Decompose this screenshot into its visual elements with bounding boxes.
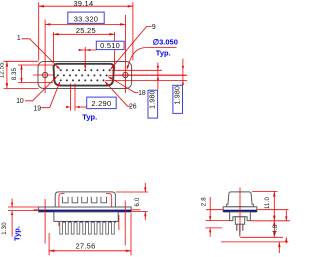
- svg-text:4.8: 4.8: [273, 224, 279, 233]
- side view pins: [237, 224, 243, 236]
- row extension line top: [112, 69, 163, 71]
- dim 1.980 right shaft: [182, 59, 184, 86]
- svg-text:10: 10: [16, 98, 24, 105]
- pin comb teeth: [60, 221, 114, 234]
- svg-text:1.980: 1.980: [150, 90, 157, 109]
- svg-text:19: 19: [33, 106, 41, 113]
- pin comb navy top line: [60, 221, 116, 223]
- label pin 26 leader: [105, 82, 130, 106]
- elevation right hole centerline: [124, 201, 126, 246]
- dim 33.320 arrows: [45, 23, 50, 26]
- side view vertical centerline: [239, 188, 241, 233]
- row extension line bottom: [105, 79, 187, 81]
- svg-text:27.56: 27.56: [75, 241, 95, 250]
- bottom reference line: [221, 241, 288, 243]
- dim 8.35 extension lines: [18, 64, 53, 66]
- shell inner red right extension: [111, 207, 113, 212]
- outer dim shaft upper: [285, 210, 287, 221]
- flange navy bottom edge: [39, 210, 131, 212]
- centerline through mounting holes: [33, 74, 53, 76]
- dim 39.14 extension lines: [38, 2, 40, 60]
- shell notch 2: [72, 197, 78, 203]
- body right red extension: [118, 215, 120, 230]
- dim 2.8 shaft: [209, 197, 211, 221]
- mounting hole right: [123, 72, 128, 77]
- shell inner red corner right: [106, 194, 112, 207]
- dim 8.35 shaft: [21, 65, 23, 83]
- dim 2.290 arrows and leader: [66, 106, 71, 108]
- side view rear body with feet: [230, 212, 251, 221]
- dim 2.290 extension lines: [70, 84, 72, 111]
- svg-text:2.8: 2.8: [202, 197, 208, 206]
- elevation left hole centerline: [44, 199, 46, 244]
- shell notch 3: [82, 197, 88, 203]
- pin row 1 (pins 1-9): [60, 69, 111, 71]
- dim 6.0 extension lines: [116, 191, 148, 193]
- right hole vertical centerline: [124, 15, 126, 93]
- dim 0.510 value box: [96, 41, 124, 49]
- outer dim shaft lower: [285, 237, 287, 243]
- side view horizontal centerline: [206, 209, 289, 211]
- svg-text:18: 18: [138, 90, 146, 97]
- dim 39.14 arrows: [39, 5, 44, 8]
- svg-text:0.510: 0.510: [100, 41, 120, 50]
- pin row 2 (pins 10-18): [57, 74, 108, 76]
- label pin 18 leader: [109, 77, 139, 93]
- dim 2.290 value box: [87, 97, 117, 109]
- dim 6.0 shaft: [144, 183, 146, 192]
- svg-text:Typ.: Typ.: [156, 48, 171, 57]
- label pin 10 leader: [25, 77, 57, 101]
- dim 4.8 shaft: [273, 221, 275, 238]
- dia 3.050 underline: [145, 47, 176, 49]
- svg-text:11.0: 11.0: [265, 197, 271, 209]
- elevation shell: [55, 192, 115, 207]
- label pin 19 leader: [41, 82, 60, 108]
- dim 12.55 shaft: [6, 61, 8, 88]
- svg-text:1: 1: [17, 35, 21, 42]
- row extension line middle: [109, 74, 188, 76]
- svg-text:33.320: 33.320: [74, 14, 98, 23]
- label pin 9 leader: [111, 26, 152, 69]
- side view flange: [223, 207, 257, 212]
- side view boot: [235, 217, 244, 224]
- elevation centerline stubs: [34, 209, 40, 211]
- svg-text:9: 9: [152, 24, 156, 31]
- rear body block: [54, 212, 118, 222]
- dim 39.14 line: [39, 5, 133, 7]
- dim 12.55 extension lines: [4, 60, 39, 62]
- dia 3.050 leader curve: [128, 48, 146, 69]
- dim 33.320 value box: [68, 12, 104, 23]
- shell notch 5: [101, 197, 107, 203]
- side view flange navy edge: [223, 210, 256, 212]
- dim 25.25 line: [54, 33, 115, 35]
- dim 4.8 extension line: [240, 236, 283, 238]
- svg-text:1.980: 1.980: [174, 86, 181, 105]
- D-sub shell outline: [54, 64, 114, 86]
- label pin 1 leader: [22, 39, 60, 69]
- dim 1.980 right value box: [173, 85, 183, 113]
- svg-text:6.0: 6.0: [135, 197, 141, 206]
- dim 11.0 extension lines: [252, 190, 277, 192]
- flange front: [39, 207, 132, 212]
- dim 1.30 shaft: [11, 199, 13, 208]
- dim 2.8 extension lines: [206, 220, 230, 222]
- dim 27.56 line: [49, 250, 131, 252]
- dim 11.0 shaft: [273, 191, 275, 220]
- shell notch 4: [91, 197, 97, 203]
- dim 33.320 line: [45, 23, 125, 25]
- shell inner red corner left: [59, 194, 65, 207]
- svg-text:8.35: 8.35: [12, 67, 18, 80]
- dim 25.25 arrows: [54, 33, 59, 36]
- dim 0.510 arrows: [79, 49, 83, 51]
- svg-text:2.290: 2.290: [91, 99, 111, 108]
- mounting hole left: [43, 72, 48, 77]
- bottom reference arrow: [278, 242, 280, 253]
- svg-text:∅3.050: ∅3.050: [153, 37, 178, 46]
- svg-text:1.30: 1.30: [2, 222, 8, 235]
- left hole vertical centerline: [44, 20, 46, 94]
- pin row 3 (pins 19-26): [60, 79, 105, 81]
- svg-text:25.25: 25.25: [76, 26, 96, 35]
- shell inner red left extension: [58, 207, 60, 226]
- svg-text:26: 26: [129, 104, 137, 111]
- dim 0.510 leader: [78, 49, 96, 51]
- connector body outline: [38, 62, 132, 89]
- svg-text:Typ.: Typ.: [12, 226, 21, 241]
- svg-text:12.55: 12.55: [0, 62, 5, 78]
- dim 25.25 extension lines: [53, 32, 55, 62]
- dim 27.56 extension lines: [48, 233, 50, 255]
- side view shell: [227, 192, 254, 207]
- svg-text:39.14: 39.14: [73, 0, 93, 8]
- shell notch 1: [63, 197, 69, 203]
- svg-text:Typ.: Typ.: [82, 112, 97, 121]
- dim 1.30 extension lines: [8, 206, 38, 208]
- dim 1.980 left value box: [148, 90, 158, 118]
- dim 1.980 left shaft: [157, 63, 159, 90]
